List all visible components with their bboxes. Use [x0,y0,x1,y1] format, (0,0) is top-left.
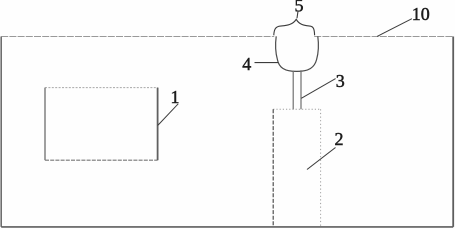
leader line to 2 [307,148,336,170]
brace cap 5 (curly-brace shaped top of balloon) [274,19,315,35]
enclosure box 10 (outer rectangle, top edge broken at balloon) [1,37,453,227]
leader line to 5 [296,12,299,18]
dotted rectangle 2 [273,109,320,227]
svg-text:3: 3 [336,71,345,91]
leader line to 3 [301,79,335,99]
svg-text:5: 5 [295,0,304,15]
svg-text:2: 2 [335,129,344,149]
svg-text:4: 4 [242,54,251,74]
stem tube 3 (two parallel lines) [293,70,301,109]
svg-text:10: 10 [412,4,430,24]
leader line to 4 [255,62,279,64]
inner rectangle 1 [45,88,158,161]
leader line to 1 [158,104,179,126]
leader line to 10 [377,19,412,37]
balloon body 4 (U-shaped bulb through top edge) [276,36,319,71]
